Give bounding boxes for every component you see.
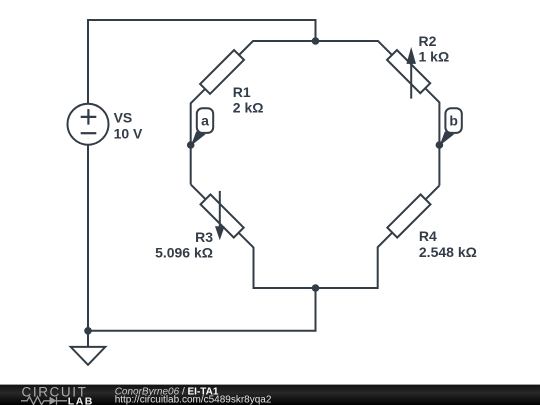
ground — [71, 331, 106, 365]
wire node a to R3 — [191, 184, 206, 199]
node a — [187, 108, 213, 149]
wire top rail — [88, 20, 316, 104]
node ground junction — [84, 327, 92, 335]
rheostat R2 — [387, 47, 430, 99]
svg-text:10 V: 10 V — [114, 125, 143, 141]
resistor R1 — [200, 50, 244, 94]
svg-text:VS: VS — [114, 109, 133, 125]
wire R1 to node a — [191, 89, 205, 184]
svg-text:LAB: LAB — [68, 395, 94, 405]
svg-text:a: a — [201, 113, 209, 129]
wire top-right arm — [316, 41, 393, 55]
svg-text:R4: R4 — [419, 228, 437, 244]
label R3 — [155, 229, 213, 261]
svg-text:R2: R2 — [419, 33, 437, 49]
footer bar — [0, 385, 540, 405]
svg-text:2.548 kΩ: 2.548 kΩ — [419, 244, 477, 260]
resistor R4 — [387, 194, 430, 237]
svg-text:http://circuitlab.com/c5489skr: http://circuitlab.com/c5489skr8yqa2 — [115, 394, 272, 405]
wire node b to R4 — [426, 186, 440, 200]
wire R4 to bottom node — [316, 233, 393, 288]
node bottom junction — [312, 284, 320, 292]
wire bottom to ground rail — [88, 288, 316, 331]
voltage source VS — [68, 104, 109, 145]
label R1 — [233, 84, 264, 116]
svg-text:b: b — [449, 113, 458, 129]
svg-text:1 kΩ: 1 kΩ — [419, 48, 450, 64]
CircuitLab logo — [21, 384, 94, 405]
svg-text:5.096 kΩ: 5.096 kΩ — [155, 245, 213, 261]
wire top-left arm — [239, 41, 316, 55]
wire left rail — [87, 145, 89, 331]
rheostat R3 — [201, 191, 244, 240]
svg-text:R3: R3 — [195, 229, 213, 245]
svg-text:2 kΩ: 2 kΩ — [233, 100, 264, 116]
wire R2 to node b — [425, 88, 439, 185]
label R4 — [419, 228, 477, 260]
label R2 — [419, 33, 450, 65]
label VS 10 V — [114, 109, 143, 141]
node top junction — [312, 37, 320, 45]
wire R3 to bottom node — [239, 233, 316, 288]
svg-text:R1: R1 — [233, 84, 251, 100]
node b — [436, 108, 462, 149]
